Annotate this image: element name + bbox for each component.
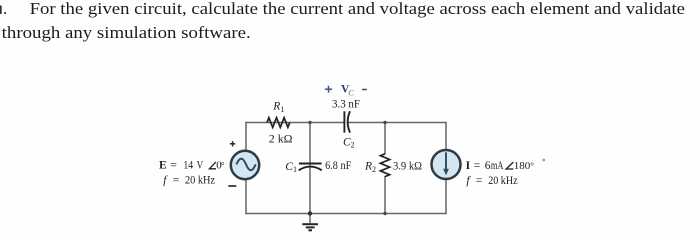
resistor R1 zigzag	[267, 118, 290, 128]
node dot top R2	[383, 121, 386, 124]
svg-text:°: °	[530, 161, 534, 171]
svg-text:6.8 nF: 6.8 nF	[325, 160, 351, 172]
svg-text:180: 180	[514, 160, 531, 172]
capacitor C2 right curved plate	[348, 111, 350, 132]
svg-text:=: =	[474, 160, 481, 172]
svg-text:=: =	[170, 160, 177, 172]
node dot bottom ground	[308, 211, 312, 215]
ground symbol	[302, 223, 318, 225]
wire ground stub	[309, 214, 311, 224]
svg-text:°: °	[221, 161, 225, 171]
resistor R2 zigzag	[380, 154, 389, 177]
plus sign at source	[230, 143, 235, 145]
wire bottom	[246, 213, 446, 215]
svg-text:E: E	[159, 160, 167, 172]
svg-text:f: f	[163, 175, 168, 187]
problem text partial glyph at left edge	[0, 6, 2, 15]
svg-text:3.3 nF: 3.3 nF	[332, 99, 360, 111]
svg-text:20 kHz: 20 kHz	[185, 175, 215, 187]
svg-text:C1: C1	[285, 161, 297, 174]
svg-text:=: =	[476, 175, 483, 187]
svg-text:f: f	[466, 175, 471, 187]
wire left branch above source	[245, 122, 247, 151]
svg-text:20 kHz: 20 kHz	[488, 175, 517, 187]
svg-text:C2: C2	[343, 136, 355, 149]
wire R2 branch above resistor	[384, 123, 386, 155]
current source arrow	[445, 152, 447, 169]
svg-text:through any simulation softwar: through any simulation software.	[2, 23, 251, 42]
svg-text:R1: R1	[272, 101, 284, 114]
capacitor C2 left plate	[343, 111, 345, 132]
voltage source sine wave	[236, 159, 255, 171]
current source I circle	[432, 150, 461, 179]
svg-text:.: .	[3, 0, 7, 18]
capacitor C1 top plate	[299, 163, 322, 165]
svg-text:mA: mA	[491, 160, 504, 172]
minus sign at source	[228, 185, 236, 187]
wire C1 branch	[309, 123, 311, 214]
svg-text:For the given circuit, calcula: For the given circuit, calculate the cur…	[30, 0, 685, 18]
svg-text:6: 6	[485, 160, 491, 172]
wire right branch below current source	[445, 180, 447, 215]
svg-text:14: 14	[183, 160, 193, 172]
wire left branch below source	[245, 180, 247, 215]
node dot top C1	[308, 121, 311, 124]
svg-text:2 kΩ: 2 kΩ	[269, 132, 293, 146]
label + Vc - (blue)	[325, 88, 332, 90]
node dot bottom R2	[383, 212, 386, 215]
angle symbol for I	[506, 162, 513, 169]
svg-text:C: C	[348, 88, 354, 98]
svg-text:I: I	[466, 160, 471, 172]
svg-text:3.9 kΩ: 3.9 kΩ	[393, 161, 422, 173]
wire top right segment	[347, 122, 446, 124]
wire right branch above current source	[445, 122, 447, 150]
capacitor C1 bottom curved plate	[299, 167, 322, 171]
wire top left segment	[246, 122, 344, 124]
wire R2 branch below resistor	[384, 176, 386, 214]
angle symbol for E	[209, 162, 216, 169]
voltage source E circle	[231, 151, 259, 179]
stray scan speck	[542, 159, 545, 162]
svg-text:=: =	[173, 175, 180, 187]
svg-text:R2: R2	[364, 161, 376, 174]
svg-text:V: V	[197, 160, 204, 172]
